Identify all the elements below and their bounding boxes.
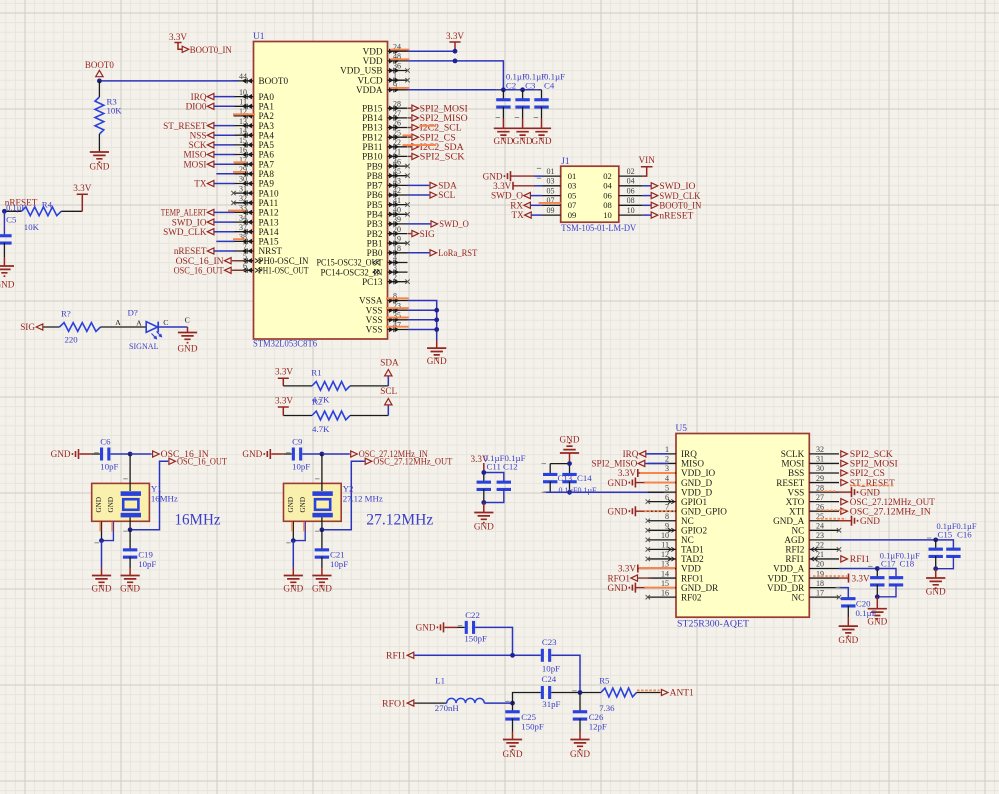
- svg-text:01: 01: [568, 171, 577, 181]
- svg-text:PB8: PB8: [367, 171, 383, 181]
- svg-text:PA9: PA9: [259, 179, 275, 189]
- U1 pin PA10 (31): [231, 184, 279, 198]
- svg-text:SPI2_CS: SPI2_CS: [850, 468, 885, 478]
- capacitor C14 0.1uF: [562, 464, 576, 493]
- ground below C3: [513, 128, 533, 146]
- wire to port OSC_16_IN: [130, 453, 152, 455]
- capacitor C13 0.1uF: [543, 464, 557, 493]
- svg-text:6: 6: [665, 493, 669, 502]
- svg-text:30: 30: [239, 175, 247, 184]
- U1 pin PA3 (13): [234, 117, 275, 131]
- svg-text:10K: 10K: [24, 222, 40, 232]
- svg-text:RFI1: RFI1: [850, 554, 870, 564]
- svg-text:GND_DR: GND_DR: [681, 583, 719, 593]
- power 3.3V for R1: [275, 367, 293, 386]
- svg-text:17: 17: [816, 588, 824, 597]
- svg-text:25: 25: [816, 512, 824, 521]
- port SWD_CLK at J1: [643, 191, 701, 201]
- svg-text:PH1-OSC_OUT: PH1-OSC_OUT: [259, 266, 309, 276]
- svg-text:Y1: Y1: [151, 484, 162, 494]
- svg-text:1: 1: [393, 71, 397, 80]
- U5 pin GND_D (4): [648, 474, 713, 488]
- svg-text:09: 09: [547, 206, 555, 215]
- wire stub PA15: [216, 240, 234, 242]
- resistor R2 4.7K: [283, 397, 388, 434]
- no-ERC marker VSS47: [386, 326, 409, 328]
- capacitor C24 31pF: [541, 674, 561, 709]
- svg-text:16MHz: 16MHz: [175, 512, 221, 529]
- capacitor C16 0.1uF: [936, 548, 961, 569]
- svg-text:08: 08: [603, 200, 612, 210]
- svg-text:35: 35: [393, 311, 401, 320]
- junction C17 bottom: [875, 594, 880, 599]
- svg-text:01: 01: [547, 167, 555, 176]
- svg-text:PA11: PA11: [259, 198, 279, 208]
- junction C24 C26 R5: [578, 690, 583, 695]
- svg-text:8: 8: [665, 512, 669, 521]
- no-ERC marker VDD: [639, 567, 675, 569]
- port SIG left: [20, 322, 43, 332]
- orange marks crystal pads: [99, 522, 101, 532]
- svg-text:PA5: PA5: [259, 140, 275, 150]
- U5 pin RESET (29): [776, 474, 839, 488]
- wire LED cathode to ground: [158, 326, 187, 328]
- no-ERC marker ST_RESET: [850, 485, 894, 487]
- port SWD_IO at J1: [643, 181, 696, 191]
- svg-text:15: 15: [239, 136, 247, 145]
- U5 pin RF02 (16): [646, 588, 702, 602]
- svg-text:GND: GND: [107, 497, 115, 513]
- svg-text:03: 03: [547, 177, 555, 186]
- wire ground to C6: [80, 453, 93, 455]
- svg-text:TEMP_ALERT: TEMP_ALERT: [161, 208, 207, 218]
- port TX: [194, 179, 234, 189]
- svg-text:GND: GND: [89, 162, 109, 172]
- U1 pin PB3 (39): [367, 215, 408, 229]
- U1 pin PB2 (20): [367, 225, 408, 239]
- svg-text:VDD_A: VDD_A: [773, 564, 804, 574]
- svg-text:D?: D?: [128, 308, 138, 318]
- capacitor C2 0.1uF: [496, 72, 527, 129]
- U5 pin VDD_DR (18): [767, 579, 839, 593]
- svg-text:26: 26: [393, 119, 401, 128]
- svg-text:SWD_O: SWD_O: [439, 219, 469, 229]
- svg-text:44: 44: [239, 72, 247, 81]
- U5 pin GPIO1 (6): [646, 493, 708, 507]
- port DIO0: [186, 102, 235, 112]
- svg-text:GND: GND: [493, 136, 513, 146]
- svg-text:U1: U1: [253, 32, 265, 42]
- U5 pin NC (10): [646, 531, 694, 545]
- svg-text:GND: GND: [860, 516, 880, 526]
- junction C3 top: [520, 87, 525, 92]
- svg-text:C11: C11: [487, 461, 501, 471]
- svg-text:150pF: 150pF: [464, 634, 487, 644]
- svg-text:29: 29: [816, 474, 824, 483]
- ground below Y2 pads: [283, 576, 303, 594]
- junction C15 bottom: [933, 566, 938, 571]
- svg-text:U5: U5: [676, 424, 688, 434]
- wire R1 to SDA: [387, 377, 389, 386]
- svg-text:11: 11: [239, 98, 247, 107]
- port SDA above R1: [380, 358, 399, 376]
- gray pin mark C3 bottom: [515, 117, 520, 119]
- svg-text:27: 27: [816, 493, 824, 502]
- svg-text:GPIO2: GPIO2: [681, 526, 707, 536]
- svg-text:R5: R5: [599, 676, 610, 686]
- svg-text:TSM-105-01-LM-DV: TSM-105-01-LM-DV: [561, 223, 636, 233]
- svg-text:RFO1: RFO1: [608, 573, 631, 583]
- svg-text:PA6: PA6: [259, 150, 275, 160]
- svg-text:PC15-OSC32_OUT: PC15-OSC32_OUT: [317, 258, 383, 268]
- svg-text:PA8: PA8: [259, 169, 275, 179]
- U1 pin PB9 (46): [367, 157, 410, 171]
- ground at U5 GND_A: [852, 516, 881, 526]
- svg-text:GND: GND: [312, 584, 332, 594]
- svg-text:GND: GND: [51, 449, 71, 459]
- svg-text:47: 47: [393, 321, 401, 330]
- svg-text:C14: C14: [577, 473, 592, 483]
- svg-text:PB6: PB6: [367, 190, 383, 200]
- U5 pin NC (8): [646, 512, 694, 526]
- no-ERC marker GND_DR: [644, 587, 675, 589]
- svg-text:RF02: RF02: [681, 592, 702, 602]
- svg-text:16: 16: [661, 588, 669, 597]
- junction BOOT0: [97, 79, 102, 84]
- svg-text:A: A: [136, 319, 142, 328]
- svg-text:PB4: PB4: [367, 210, 383, 220]
- ground below C19: [120, 576, 140, 594]
- J1 pin 09: [542, 206, 576, 220]
- svg-text:06: 06: [627, 186, 635, 195]
- svg-text:3.3V: 3.3V: [618, 564, 636, 574]
- svg-text:10pF: 10pF: [138, 559, 156, 569]
- svg-text:GND: GND: [838, 635, 858, 645]
- svg-text:VIN: VIN: [639, 155, 656, 165]
- junction VDD pin48: [453, 59, 458, 64]
- U1 pin PA6 (16): [234, 146, 275, 160]
- svg-text:GND: GND: [532, 136, 552, 146]
- no-ERC marker PA2: [233, 113, 255, 115]
- svg-text:VDDA: VDDA: [356, 85, 383, 95]
- svg-text:STM32L053C8T6: STM32L053C8T6: [253, 339, 317, 349]
- port nRESET at J1: [643, 210, 694, 220]
- svg-text:31: 31: [816, 455, 824, 464]
- power port 3.3V / BOOT0_IN top-left: [169, 32, 232, 55]
- ground left of C22: [416, 622, 444, 632]
- port RFO1 left: [382, 698, 414, 708]
- U1 pin PB0 (18): [367, 244, 408, 258]
- wire pads to ground: [292, 541, 294, 567]
- wire C23 to C24 node: [551, 655, 580, 692]
- svg-text:27: 27: [393, 109, 401, 118]
- svg-text:R?: R?: [61, 309, 71, 319]
- wire VSS to ground: [436, 341, 438, 349]
- svg-text:TAD1: TAD1: [681, 545, 704, 555]
- port OSC_27.12MHz_OUT: [365, 457, 452, 467]
- capacitor C22 150pF: [464, 610, 487, 644]
- U1 pin VDDA (9): [356, 81, 408, 95]
- svg-text:PA14: PA14: [259, 227, 279, 237]
- U1 pin PC15-OSC32_OUT (4): [317, 254, 408, 268]
- svg-text:C15: C15: [938, 529, 953, 539]
- gray pin mark C2 bottom: [496, 117, 501, 119]
- capacitor C6 10pF: [100, 437, 118, 472]
- U1 pin PB6 (42): [367, 186, 408, 200]
- capacitor C20 0.1uF: [841, 597, 876, 626]
- U5 pin XTO (27): [786, 493, 839, 507]
- junction VDD pin24: [453, 49, 458, 54]
- ground at U5 GND_D: [607, 478, 648, 488]
- svg-text:PC14-OSC32_IN: PC14-OSC32_IN: [321, 267, 383, 277]
- crystal Y2 electrode symbol: [312, 454, 332, 530]
- svg-text:21: 21: [393, 148, 401, 157]
- junction C11 top: [481, 470, 486, 475]
- U1 pin VDD (48): [363, 52, 408, 66]
- no-ERC marker PA12: [228, 210, 246, 212]
- svg-text:RFI1: RFI1: [785, 554, 804, 564]
- svg-text:SPI2_SCK: SPI2_SCK: [850, 449, 893, 459]
- svg-text:nRESET: nRESET: [174, 246, 207, 256]
- junction RFI1 C22: [510, 653, 515, 658]
- wire RFI1 to C23: [414, 654, 540, 656]
- svg-text:SCL: SCL: [438, 190, 455, 200]
- svg-text:10K: 10K: [107, 105, 123, 115]
- svg-text:43: 43: [393, 177, 401, 186]
- svg-text:7.36: 7.36: [599, 703, 615, 713]
- U5 pin VDD_IO (3): [648, 464, 716, 478]
- wire VSS to ground: [839, 491, 852, 493]
- U5 pin VDD_A (20): [773, 560, 839, 574]
- svg-text:TX: TX: [512, 210, 525, 220]
- wire ground to C9: [271, 453, 284, 455]
- ground below Y1 pads: [92, 576, 112, 594]
- svg-text:ANT1: ANT1: [670, 688, 694, 698]
- svg-text:PA13: PA13: [259, 217, 279, 227]
- gray pin mark C3 top: [515, 89, 520, 91]
- port SPI2_MISO: [408, 113, 468, 123]
- svg-text:PC13: PC13: [362, 277, 383, 287]
- junction C17 top: [875, 566, 880, 571]
- svg-text:MOSI: MOSI: [781, 459, 804, 469]
- power 3.3V for R2: [275, 395, 293, 415]
- wire to port OSC_27.12MHz_IN: [322, 453, 350, 455]
- svg-text:5: 5: [243, 252, 247, 261]
- svg-text:C5: C5: [6, 214, 17, 224]
- U1 pin PB8 (45): [367, 167, 410, 181]
- svg-text:11: 11: [661, 541, 669, 550]
- no-ERC marker GND_D: [644, 482, 675, 484]
- svg-text:PB15: PB15: [362, 103, 383, 113]
- U1 pin PA12 (33): [234, 204, 279, 218]
- svg-text:16MHz: 16MHz: [151, 494, 178, 504]
- port OSC_27.12MHz_OUT at U5: [841, 497, 935, 507]
- port BOOT0_IN at J1: [643, 201, 702, 211]
- svg-text:C18: C18: [900, 559, 915, 569]
- U1 pin VSSA (8): [359, 292, 408, 306]
- port RFI1 at U5: [841, 554, 870, 564]
- svg-text:nRESET: nRESET: [659, 210, 693, 220]
- wire GND_A to ground: [839, 520, 852, 522]
- port SWD_O at J1: [491, 191, 543, 201]
- port RX at J1: [510, 201, 542, 211]
- no-ERC marker VSSA: [386, 297, 409, 299]
- svg-text:RESET: RESET: [776, 478, 804, 488]
- junction C11 bottom: [481, 500, 486, 505]
- svg-text:SIG: SIG: [420, 229, 435, 239]
- J1 pin 03: [542, 177, 576, 191]
- port OSC_27.12MHz_IN: [351, 449, 428, 459]
- svg-text:GPIO1: GPIO1: [681, 497, 707, 507]
- svg-text:150pF: 150pF: [521, 721, 544, 731]
- crystal Y2 pad pins to ground: [293, 521, 305, 540]
- U5 pin MISO (2): [648, 455, 705, 469]
- svg-text:GND: GND: [503, 749, 523, 759]
- svg-text:12pF: 12pF: [589, 721, 607, 731]
- port IRQ: [191, 92, 235, 102]
- svg-text:SPI2_SCK: SPI2_SCK: [420, 152, 465, 162]
- port OSC_16_OUT: [169, 457, 227, 467]
- no-ERC marker XTI: [818, 509, 846, 511]
- svg-text:3.3V: 3.3V: [275, 367, 293, 377]
- svg-text:40: 40: [393, 206, 401, 215]
- svg-text:PA2: PA2: [259, 111, 275, 121]
- svg-text:GND: GND: [287, 497, 295, 513]
- svg-text:36: 36: [393, 62, 401, 71]
- svg-text:PB5: PB5: [367, 200, 383, 210]
- svg-text:PA7: PA7: [259, 159, 275, 169]
- wire C11 to ground: [483, 503, 485, 513]
- svg-text:0.1µF: 0.1µF: [856, 608, 877, 618]
- no-ERC marker VSS23: [386, 307, 409, 309]
- ground below C2: [493, 128, 513, 146]
- wire R5 to ANT1: [637, 692, 661, 694]
- svg-text:GND_A: GND_A: [773, 516, 804, 526]
- svg-text:08: 08: [627, 196, 635, 205]
- svg-text:SPI2_MOSI: SPI2_MOSI: [850, 459, 898, 469]
- svg-text:GND: GND: [92, 584, 112, 594]
- svg-text:GND_D: GND_D: [681, 478, 712, 488]
- wire C9 to crystal junction: [302, 453, 322, 455]
- capacitor C21 10pF: [315, 530, 348, 576]
- port OSC_16_IN: [153, 449, 209, 459]
- no-ERC marker RX: [539, 202, 561, 204]
- U1 pin PA1 (11): [234, 98, 275, 112]
- svg-text:3.3V: 3.3V: [275, 395, 293, 405]
- wire pads to ground: [101, 541, 103, 567]
- U1 pin PB14 (27): [362, 109, 407, 123]
- svg-text:7: 7: [243, 242, 247, 251]
- svg-text:0.1µF0.1µF: 0.1µF0.1µF: [559, 485, 597, 495]
- U5 pin GPIO2 (9): [646, 522, 708, 536]
- svg-text:VDD_IO: VDD_IO: [681, 468, 716, 478]
- svg-text:BOOT0: BOOT0: [85, 60, 114, 70]
- U1 pin PA14 (37): [234, 223, 279, 237]
- svg-text:3: 3: [393, 263, 397, 272]
- U5 pin NC (24): [792, 522, 842, 536]
- svg-text:05: 05: [547, 186, 555, 195]
- svg-text:SDA: SDA: [438, 181, 457, 191]
- svg-text:5: 5: [665, 483, 669, 492]
- wire PB3 to SWD_O port: [408, 223, 431, 225]
- port I2C2_SCL: [408, 123, 462, 133]
- svg-text:Y2: Y2: [343, 484, 354, 494]
- svg-text:GND: GND: [0, 280, 15, 290]
- ground below U1 VSS: [427, 348, 447, 366]
- port SWD_O: [431, 219, 469, 229]
- junction crystal pads: [99, 538, 104, 543]
- gray pin mark C4 top: [534, 89, 539, 91]
- svg-text:SPI2_CS: SPI2_CS: [420, 132, 456, 142]
- svg-text:04: 04: [627, 177, 635, 186]
- junction VSS 35: [434, 317, 439, 322]
- svg-text:C: C: [185, 316, 190, 325]
- svg-text:SWD_O: SWD_O: [491, 191, 523, 201]
- U1 pin PB11 (22): [362, 138, 407, 152]
- junction VSS 23: [434, 308, 439, 313]
- svg-text:PA10: PA10: [259, 188, 279, 198]
- svg-text:PB3: PB3: [367, 219, 383, 229]
- wire VDD_TX to 3.3V: [839, 577, 849, 579]
- svg-text:1: 1: [665, 445, 669, 454]
- J1 pin 10: [603, 206, 642, 220]
- U5 pin NC (17): [792, 588, 842, 602]
- svg-text:VLCD: VLCD: [357, 75, 382, 85]
- svg-text:10pF: 10pF: [292, 462, 310, 472]
- port SWD_CLK: [163, 227, 234, 237]
- svg-text:TAD2: TAD2: [681, 554, 704, 564]
- svg-text:BSS: BSS: [788, 468, 804, 478]
- svg-text:RFO1: RFO1: [681, 573, 704, 583]
- no-ERC marker GND_A: [817, 518, 846, 520]
- svg-text:I2C2_SCL: I2C2_SCL: [420, 123, 462, 133]
- U5 pin VDD_D (5): [648, 483, 713, 497]
- svg-text:7: 7: [665, 502, 669, 511]
- capacitor C26 12pF: [573, 693, 607, 740]
- crystal Y2 body: [284, 483, 342, 521]
- svg-text:3.3V: 3.3V: [446, 31, 464, 41]
- wire VDD pin24 to 3.3V: [408, 50, 456, 52]
- ground below R3: [89, 152, 109, 172]
- wire OSC_16_OUT routing: [130, 461, 168, 530]
- svg-text:L1: L1: [435, 676, 445, 686]
- no-ERC marker PB11 row: [403, 144, 437, 146]
- U5 pin MOSI (31): [781, 455, 839, 469]
- svg-text:4: 4: [665, 474, 669, 483]
- svg-text:10pF: 10pF: [100, 462, 118, 472]
- wire RFO1 to L1: [414, 702, 446, 704]
- U1 pin PA8 (29): [234, 165, 275, 179]
- svg-text:14: 14: [661, 569, 669, 578]
- svg-text:09: 09: [568, 210, 577, 220]
- ground below C4: [532, 128, 552, 146]
- svg-text:270nH: 270nH: [435, 703, 460, 713]
- wire C15 to ground: [935, 569, 937, 578]
- U1 pin PB7 (43): [367, 177, 408, 191]
- svg-text:C9: C9: [292, 437, 303, 447]
- svg-text:LoRa_RST: LoRa_RST: [438, 248, 477, 258]
- J1 pin 07: [542, 196, 577, 210]
- svg-text:PB2: PB2: [367, 229, 383, 239]
- J1 pin 06: [603, 186, 642, 200]
- svg-text:37: 37: [239, 223, 247, 232]
- U1 pin PH0-OSC_IN (5): [234, 252, 309, 266]
- inductor L1 270nH: [435, 676, 485, 713]
- power 3.3V at U5 VDD_TX: [849, 573, 870, 583]
- wire PB7 to SDA port: [408, 184, 430, 186]
- svg-text:C22: C22: [465, 610, 480, 620]
- crystal Y1 pad pins to ground: [102, 521, 114, 540]
